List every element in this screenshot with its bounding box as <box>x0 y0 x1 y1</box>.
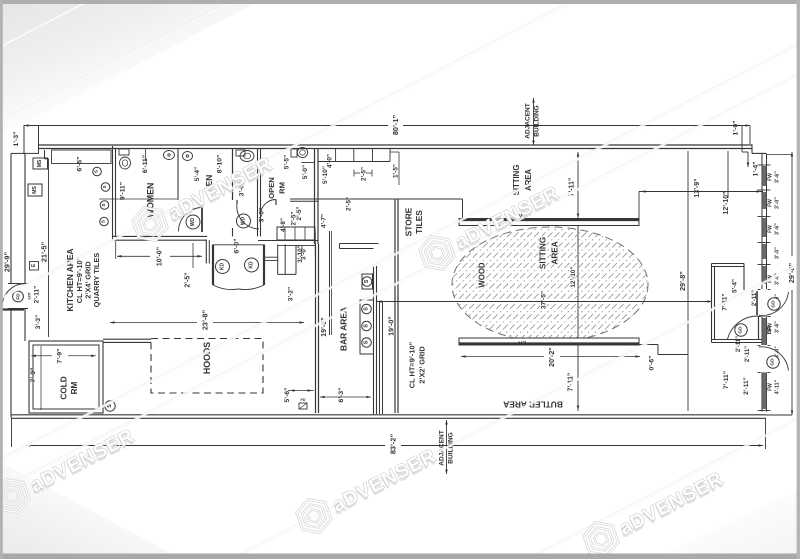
svg-text:OPEN: OPEN <box>267 177 276 199</box>
svg-text:2’-5”: 2’-5” <box>185 272 192 287</box>
svg-text:STORE: STORE <box>404 207 414 236</box>
svg-text:7’-9”: 7’-9” <box>30 368 37 383</box>
svg-text:S: S <box>364 324 370 328</box>
svg-text:10’-0”: 10’-0” <box>157 247 164 266</box>
svg-text:KD: KD <box>220 263 226 271</box>
svg-text:29’-8”: 29’-8” <box>679 271 687 291</box>
svg-text:21’-5”: 21’-5” <box>40 242 49 263</box>
svg-text:CL HT=9’-10”: CL HT=9’-10” <box>408 341 417 388</box>
svg-text:COLD: COLD <box>60 376 69 399</box>
svg-text:3’-3”: 3’-3” <box>35 315 42 329</box>
svg-text:GD: GD <box>770 358 776 366</box>
svg-text:AREA: AREA <box>551 241 560 264</box>
svg-text:8’-10”: 8’-10” <box>217 155 224 174</box>
svg-text:2’-11”: 2’-11” <box>743 377 750 395</box>
svg-text:2’-11”: 2’-11” <box>745 346 751 362</box>
svg-text:3’-6”: 3’-6” <box>775 321 781 333</box>
svg-text:1’-3”: 1’-3” <box>13 132 20 147</box>
svg-text:FW: FW <box>768 225 774 233</box>
svg-text:23’-8”: 23’-8” <box>201 310 210 331</box>
svg-text:3’-0”: 3’-0” <box>259 208 266 222</box>
svg-text:5’-10”: 5’-10” <box>322 166 329 184</box>
svg-text:0’-6”: 0’-6” <box>649 356 656 371</box>
svg-text:2’-11”: 2’-11” <box>736 336 742 352</box>
svg-text:12’-10”: 12’-10” <box>723 192 730 215</box>
svg-text:2’-5”: 2’-5” <box>361 167 368 181</box>
svg-text:FW: FW <box>768 199 774 207</box>
svg-text:3’-6”: 3’-6” <box>775 171 781 183</box>
svg-text:3’-6”: 3’-6” <box>775 223 781 235</box>
svg-text:WD: WD <box>241 216 247 225</box>
svg-text:BUILDING: BUILDING <box>534 105 541 136</box>
svg-text:3’-2”: 3’-2” <box>288 287 295 301</box>
svg-text:1’-5”: 1’-5” <box>393 164 400 178</box>
svg-text:2’-11”: 2’-11” <box>34 286 41 304</box>
svg-text:TILES: TILES <box>414 210 424 234</box>
svg-text:GD: GD <box>771 300 777 308</box>
svg-text:20’-2”: 20’-2” <box>548 347 556 367</box>
svg-text:80’-1”: 80’-1” <box>391 115 400 136</box>
svg-text:5’-4”: 5’-4” <box>194 167 201 181</box>
svg-text:S: S <box>364 340 370 344</box>
svg-text:5’-5”: 5’-5” <box>284 155 291 169</box>
svg-text:FD: FD <box>300 398 305 402</box>
svg-text:MS: MS <box>37 159 43 167</box>
svg-text:4’-0”: 4’-0” <box>327 154 334 168</box>
svg-text:1’-0”: 1’-0” <box>733 121 740 136</box>
svg-text:5’-6”: 5’-6” <box>284 388 291 403</box>
svg-text:QUARRY TILES: QUARRY TILES <box>92 253 101 308</box>
svg-text:S: S <box>364 307 370 311</box>
svg-text:6’-0”: 6’-0” <box>234 239 241 254</box>
svg-text:MS: MS <box>32 186 38 194</box>
svg-text:WOOD: WOOD <box>478 262 487 287</box>
svg-text:3’-0”: 3’-0” <box>775 247 781 259</box>
svg-text:AREA: AREA <box>524 169 533 191</box>
svg-text:2’-5”: 2’-5” <box>296 207 303 221</box>
svg-text:4’-11”: 4’-11” <box>775 379 781 394</box>
svg-text:6’-5”: 6’-5” <box>77 157 84 172</box>
svg-text:9’-11”: 9’-11” <box>120 182 127 200</box>
svg-text:5’-4”: 5’-4” <box>732 279 739 293</box>
svg-text:19’-0”: 19’-0” <box>388 316 396 336</box>
svg-text:KITCHEN AREA: KITCHEN AREA <box>65 249 75 312</box>
svg-text:EXIT: EXIT <box>28 292 32 299</box>
svg-text:FD: FD <box>16 293 21 300</box>
svg-text:FW: FW <box>768 173 774 181</box>
svg-text:FW: FW <box>768 383 774 391</box>
svg-text:5’-0”: 5’-0” <box>302 165 309 179</box>
svg-text:RM: RM <box>278 182 287 194</box>
svg-text:RM: RM <box>70 381 79 394</box>
svg-text:GD: GD <box>738 326 744 334</box>
svg-text:13’-9”: 13’-9” <box>694 178 701 197</box>
svg-text:6’-11”: 6’-11” <box>142 155 149 173</box>
svg-text:7’-9”: 7’-9” <box>57 349 64 364</box>
svg-text:3’-0”: 3’-0” <box>775 197 781 209</box>
svg-text:12’-10”: 12’-10” <box>570 266 577 287</box>
svg-text:BR: BR <box>767 325 773 334</box>
svg-text:4’-7”: 4’-7” <box>321 214 328 228</box>
svg-text:6’-3”: 6’-3” <box>338 388 345 403</box>
svg-text:S: S <box>364 279 370 283</box>
svg-text:29’-9”: 29’-9” <box>3 252 12 273</box>
svg-text:ADJACENT: ADJACENT <box>525 103 532 138</box>
svg-text:LW: LW <box>517 340 526 346</box>
svg-text:HOODS: HOODS <box>202 342 212 374</box>
svg-text:KD: KD <box>249 261 255 269</box>
svg-text:4’-8”: 4’-8” <box>280 218 287 232</box>
svg-text:1’-4”: 1’-4” <box>753 162 760 177</box>
svg-text:7’-11”: 7’-11” <box>723 371 730 389</box>
svg-text:3’-10”: 3’-10” <box>297 245 304 263</box>
svg-text:83’-2”: 83’-2” <box>389 434 398 455</box>
svg-text:2’X2’ GRID: 2’X2’ GRID <box>418 346 427 384</box>
svg-text:SITTING: SITTING <box>539 237 548 269</box>
svg-text:37’-5”: 37’-5” <box>541 291 548 309</box>
